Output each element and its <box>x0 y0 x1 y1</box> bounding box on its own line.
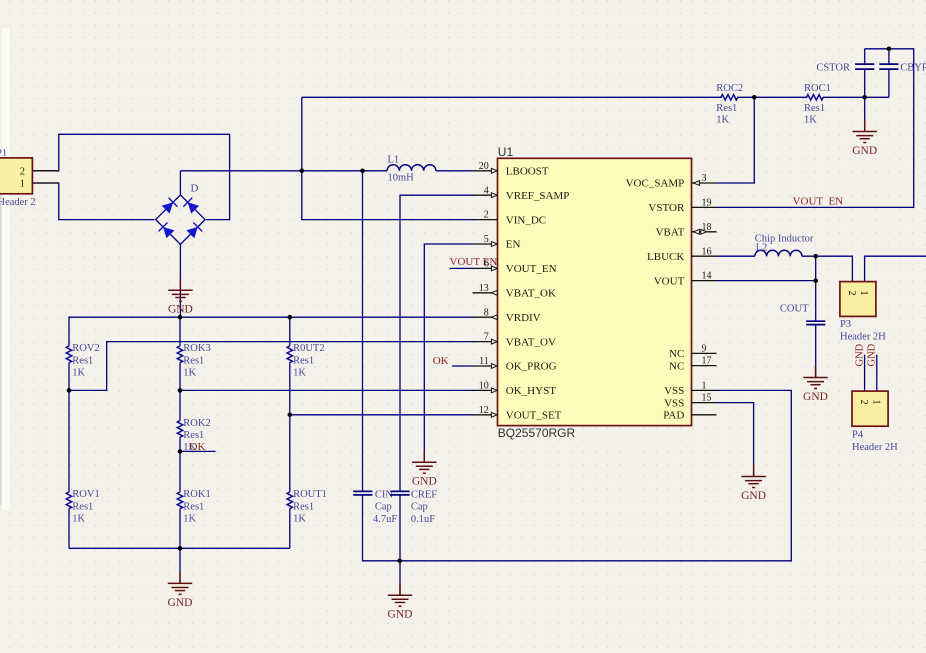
wire CREF bottom to rail <box>399 495 401 561</box>
pin P1-1 stub <box>32 182 58 184</box>
svg-text:Cap: Cap <box>411 502 428 513</box>
svg-text:6: 6 <box>484 258 489 269</box>
svg-text:COUT: COUT <box>780 304 809 315</box>
svg-text:Res1: Res1 <box>293 501 314 512</box>
svg-text:7: 7 <box>484 332 489 343</box>
svg-text:GND: GND <box>852 145 877 157</box>
connector P4 <box>852 391 888 426</box>
svg-text:1K: 1K <box>293 367 306 378</box>
svg-text:GND: GND <box>855 343 866 366</box>
svg-text:R0UT2: R0UT2 <box>293 343 325 354</box>
svg-text:VBAT: VBAT <box>656 227 685 239</box>
svg-text:ROK2: ROK2 <box>183 418 210 429</box>
wire L1 to LBOOST pin 20 <box>436 170 473 172</box>
svg-text:4: 4 <box>484 185 489 196</box>
pin 20 LBOOST <box>473 170 498 172</box>
pin P1-2 stub <box>32 170 58 172</box>
svg-text:Res1: Res1 <box>804 103 825 114</box>
svg-text:1: 1 <box>702 381 707 392</box>
svg-text:Res1: Res1 <box>183 501 204 512</box>
svg-text:2: 2 <box>846 290 857 295</box>
pin 15 VSS <box>692 402 717 404</box>
wire P4 pin1 stub <box>876 355 878 391</box>
wire VOUT_EN net stub at pin <box>450 267 473 269</box>
svg-text:Header 2H: Header 2H <box>840 331 886 342</box>
svg-text:GND: GND <box>803 391 828 403</box>
wire VSS pin15 to GND <box>717 403 754 477</box>
wire bridge top to boost node <box>179 171 181 196</box>
resistor R0UT2 <box>287 346 292 363</box>
svg-text:NC: NC <box>669 348 684 360</box>
ground at VSS pin15 <box>741 465 765 488</box>
pin PAD PAD <box>692 414 717 416</box>
wire bottom rail to GND <box>179 548 181 583</box>
svg-text:L2: L2 <box>756 242 768 253</box>
svg-text:LBOOST: LBOOST <box>506 166 549 178</box>
inductor L1 <box>387 165 436 171</box>
pin 17 NC <box>692 365 717 367</box>
svg-text:OK: OK <box>190 441 206 453</box>
svg-text:GND: GND <box>412 476 437 488</box>
wire ROV column <box>68 363 70 549</box>
wire LBUCK pin16 to L2 <box>717 255 755 257</box>
svg-text:1: 1 <box>870 399 881 404</box>
capacitor CBYP <box>879 63 898 65</box>
svg-text:Header 2H: Header 2H <box>852 442 898 453</box>
svg-text:Res1: Res1 <box>72 355 93 366</box>
svg-text:Header 2: Header 2 <box>0 197 36 208</box>
junction bottom rail to ground <box>178 546 183 551</box>
svg-text:VBAT_OK: VBAT_OK <box>506 288 556 300</box>
wire P3 pin1 from right edge <box>865 256 926 281</box>
svg-text:VSS: VSS <box>664 385 684 397</box>
svg-text:GND: GND <box>741 490 766 502</box>
diode bridge D <box>156 195 205 244</box>
svg-text:VREF_SAMP: VREF_SAMP <box>506 190 570 202</box>
svg-text:GND: GND <box>168 597 193 609</box>
wire CSTOR leads <box>864 49 866 98</box>
wire L2 to P3 pin2 <box>802 256 853 281</box>
svg-text:P3: P3 <box>840 319 851 330</box>
wire P1 pin1 to bridge left corner <box>32 183 154 220</box>
wire boost node to L1 <box>180 170 387 172</box>
IC U1 BQ25570RGR <box>498 158 692 425</box>
svg-text:2: 2 <box>858 399 869 404</box>
pin 14 VOUT <box>692 280 717 282</box>
junction buck node at L2 <box>813 254 818 259</box>
svg-text:0.1uF: 0.1uF <box>411 514 435 525</box>
svg-text:P1: P1 <box>0 148 7 159</box>
svg-text:12: 12 <box>479 405 489 416</box>
svg-text:VIN_DC: VIN_DC <box>506 214 546 226</box>
pin 3 VOC_SAMP <box>692 182 717 184</box>
pin 6 VOUT_EN <box>473 267 498 269</box>
svg-text:VOUT_SET: VOUT_SET <box>506 410 562 422</box>
svg-text:1: 1 <box>20 179 25 190</box>
svg-text:ROV1: ROV1 <box>72 489 99 500</box>
svg-text:VRDIV: VRDIV <box>506 312 541 324</box>
resistor ROV2 <box>66 346 71 363</box>
svg-text:NC: NC <box>669 360 684 372</box>
svg-text:ROK1: ROK1 <box>183 489 210 500</box>
wire ROC2-ROC1 segment <box>737 96 807 98</box>
pin 10 OK_HYST <box>473 389 498 391</box>
svg-text:1: 1 <box>858 290 869 295</box>
svg-text:D: D <box>191 183 199 195</box>
diode top-left <box>162 202 173 213</box>
wire EN pin5 to GND <box>424 244 472 462</box>
wire ROUT column <box>289 317 291 548</box>
pin 1 VSS <box>692 389 717 391</box>
wire VOUT pin14 to buck node <box>717 280 816 282</box>
pin 11 OK_PROG <box>473 365 498 367</box>
svg-text:2: 2 <box>20 166 25 177</box>
wire COUT bottom to GND <box>815 325 817 378</box>
svg-text:Cap: Cap <box>375 502 392 513</box>
svg-text:5: 5 <box>484 234 489 245</box>
junction VOUT at buck node <box>813 278 818 283</box>
junction CSTOR at ROC rail <box>862 95 867 100</box>
diode bottom-left <box>163 227 174 238</box>
junction OK net at ROK2 <box>178 449 183 454</box>
svg-text:ROC1: ROC1 <box>804 83 831 94</box>
svg-text:VOUT: VOUT <box>654 275 685 287</box>
pin 16 LBUCK <box>692 255 717 257</box>
inductor L2 Chip Inductor <box>755 250 802 256</box>
pin 5 EN <box>473 243 498 245</box>
svg-text:9: 9 <box>702 344 707 355</box>
svg-text:CREF: CREF <box>411 490 437 501</box>
svg-text:GND: GND <box>388 609 413 621</box>
wire rail junction to GND <box>399 561 401 595</box>
svg-text:18: 18 <box>702 222 712 233</box>
pin 2 VIN_DC <box>473 219 498 221</box>
ground below CSTOR <box>853 120 877 143</box>
wire bridge bottom to ground rail <box>179 244 181 317</box>
junction ROUT divider tap <box>288 413 293 418</box>
wire CIN riser from boost node <box>362 171 364 492</box>
svg-text:VOUT EN: VOUT EN <box>793 195 844 207</box>
svg-text:U1: U1 <box>498 145 514 159</box>
wire buck node down to COUT <box>815 256 817 321</box>
pin 8 VRDIV <box>473 316 498 318</box>
svg-text:17: 17 <box>702 356 712 367</box>
svg-text:VOUT EN: VOUT EN <box>450 256 498 268</box>
svg-text:OK_PROG: OK_PROG <box>506 361 557 373</box>
wire P1 pin2 to bridge right corner <box>32 134 229 219</box>
svg-text:VBAT_OV: VBAT_OV <box>506 336 556 348</box>
capacitor CIN <box>353 490 372 492</box>
resistor ROUT1 <box>287 492 292 509</box>
wire ROUT tap to VOUT_SET pin 12 <box>290 414 473 416</box>
pin 18 VBAT <box>692 231 717 233</box>
svg-text:1K: 1K <box>72 367 85 378</box>
svg-text:16: 16 <box>702 246 712 257</box>
svg-text:VSS: VSS <box>664 397 684 409</box>
svg-text:PAD: PAD <box>663 410 684 422</box>
wire CSTOR top link <box>717 49 914 208</box>
svg-text:10: 10 <box>479 381 489 392</box>
pin 7 VBAT_OV <box>473 341 498 343</box>
svg-text:2: 2 <box>484 210 489 221</box>
svg-text:1K: 1K <box>804 115 817 126</box>
ground at EN <box>412 450 436 473</box>
svg-text:1K: 1K <box>293 513 306 524</box>
svg-text:OK: OK <box>433 355 449 367</box>
junction ROV divider tap <box>67 388 72 393</box>
connector P1 <box>0 158 32 194</box>
svg-text:GND: GND <box>867 343 878 366</box>
resistor ROK3 <box>177 346 182 363</box>
diode top-right <box>188 202 199 213</box>
wire VOC rail riser x=301.8 <box>302 97 473 219</box>
svg-text:ROK3: ROK3 <box>183 343 210 354</box>
resistor ROK1 <box>177 492 182 509</box>
resistor ROC1 <box>806 95 823 100</box>
ground below resistor rail <box>168 572 192 595</box>
wire resistor top rail y=317 to VRDIV pin 8 <box>69 317 473 346</box>
ground below COUT <box>803 366 827 389</box>
wire VREF_SAMP pin4 to CREF <box>400 195 473 491</box>
pin 19 VSTOR <box>692 206 717 208</box>
svg-text:Res1: Res1 <box>183 355 204 366</box>
svg-text:LBUCK: LBUCK <box>647 251 684 263</box>
svg-text:1K: 1K <box>716 115 729 126</box>
svg-text:1K: 1K <box>183 513 196 524</box>
junction VOC_SAMP tap on ROC rail <box>752 95 757 100</box>
capacitor COUT <box>806 320 825 322</box>
wire CSTOR junction to GND <box>864 97 866 131</box>
junction R0UT2 top on ground rail <box>288 315 293 320</box>
junction ROK3 top on ground rail <box>178 315 183 320</box>
svg-text:L1: L1 <box>388 155 400 166</box>
svg-text:ROC2: ROC2 <box>716 83 743 94</box>
svg-text:3: 3 <box>702 173 707 184</box>
junction CREF at VSS rail <box>398 559 403 564</box>
pin 4 VREF_SAMP <box>473 194 498 196</box>
svg-text:15: 15 <box>702 393 712 404</box>
svg-text:VSTOR: VSTOR <box>648 202 685 214</box>
svg-text:1K: 1K <box>72 513 85 524</box>
svg-text:19: 19 <box>702 198 712 209</box>
svg-text:CBYP: CBYP <box>900 63 926 74</box>
resistor ROV1 <box>66 492 71 509</box>
wire P4 pin2 stub <box>864 355 866 391</box>
wire OK net stub at ROK2 <box>180 450 216 452</box>
svg-text:14: 14 <box>702 271 712 282</box>
svg-text:P4: P4 <box>852 430 864 441</box>
svg-text:CSTOR: CSTOR <box>816 63 850 74</box>
wire ROV tap to VBAT_OV pin 7 <box>69 342 473 391</box>
ground below CIN/CREF rail <box>388 583 412 606</box>
diode bottom-right <box>186 227 197 238</box>
junction ROK divider tap <box>178 388 183 393</box>
wire ROK tap to OK_HYST pin 10 <box>180 389 473 391</box>
svg-text:Res1: Res1 <box>716 103 737 114</box>
wire resistor bottom rail <box>69 547 290 549</box>
junction VIN_DC riser at boost node <box>300 169 305 174</box>
svg-text:11: 11 <box>479 356 489 367</box>
svg-text:VOUT_EN: VOUT_EN <box>506 263 557 275</box>
wire VOC_SAMP pin3 riser <box>717 97 755 183</box>
wire CBYP leads <box>888 49 890 98</box>
svg-text:OK_HYST: OK_HYST <box>506 385 556 397</box>
sheet edge strip <box>2 28 10 510</box>
svg-text:VOC_SAMP: VOC_SAMP <box>626 178 685 190</box>
wire ROC1 to CSTOR junction <box>823 96 889 98</box>
junction CBYP top tap <box>887 47 892 52</box>
svg-text:BQ25570RGR: BQ25570RGR <box>498 426 576 440</box>
svg-text:EN: EN <box>506 239 521 251</box>
pin 12 VOUT_SET <box>473 414 498 416</box>
svg-text:GND: GND <box>168 304 193 316</box>
wire OK net stub at pin 11 <box>452 365 473 367</box>
capacitor CREF <box>390 490 409 492</box>
wire ROK column <box>179 317 181 548</box>
svg-text:1K: 1K <box>183 367 196 378</box>
resistor ROC2 <box>721 95 738 100</box>
wire CIN bottom to VSS rail <box>363 390 792 560</box>
svg-text:20: 20 <box>479 161 489 172</box>
svg-text:13: 13 <box>479 283 489 294</box>
svg-text:ROV2: ROV2 <box>72 343 99 354</box>
ground below bridge <box>168 279 192 302</box>
resistor ROK2 <box>177 421 182 438</box>
svg-text:Res1: Res1 <box>183 430 204 441</box>
svg-text:10mH: 10mH <box>388 173 415 184</box>
wire top rail y=97 left segment <box>302 96 722 98</box>
junction CIN riser at boost node <box>360 169 365 174</box>
capacitor CSTOR <box>855 63 874 65</box>
svg-text:ROUT1: ROUT1 <box>293 489 327 500</box>
svg-text:8: 8 <box>484 307 489 318</box>
pin 13 VBAT_OK <box>473 292 498 294</box>
svg-text:Res1: Res1 <box>293 355 314 366</box>
connector P3 <box>840 282 876 317</box>
svg-text:4.7uF: 4.7uF <box>373 514 397 525</box>
pin 9 NC <box>692 352 717 354</box>
svg-text:Res1: Res1 <box>72 501 93 512</box>
